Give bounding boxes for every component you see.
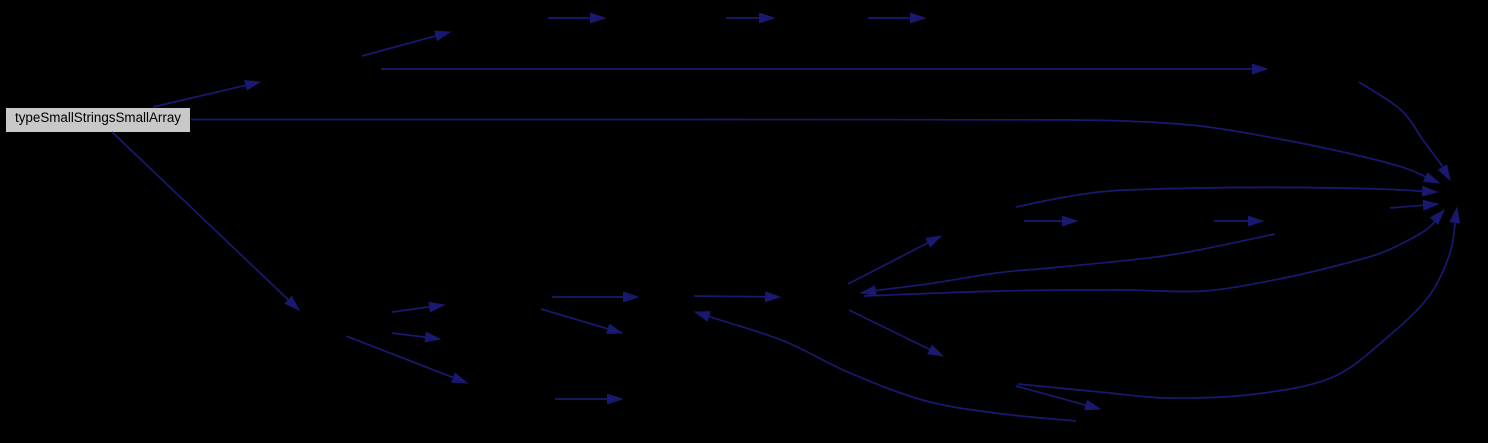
edge B->K	[392, 302, 444, 312]
edge M->N	[555, 394, 622, 404]
edge main->B (down diagonal)	[112, 132, 299, 310]
edge main->F (long straight)	[191, 120, 1439, 184]
edge n2->n3	[362, 31, 450, 56]
edge top-row arrow 3	[868, 13, 925, 23]
edge B->L	[392, 332, 440, 342]
edge H->F	[1016, 186, 1437, 207]
edge main->n2 (up diagonal)	[153, 81, 260, 107]
edge D->E (down right)	[849, 310, 943, 356]
edge K->C	[552, 292, 638, 302]
edge D->F	[864, 210, 1444, 296]
edge C->D	[694, 292, 780, 302]
edge E->G	[1016, 386, 1100, 410]
node typeSmallStringsSmallArray (highlighted)	[6, 108, 190, 132]
edge n2->r1 (long horizontal y=69)	[381, 64, 1267, 74]
edge top-row arrow 1	[548, 13, 605, 23]
edge G->C (long back curve)	[695, 312, 1076, 421]
edge B->M	[346, 336, 467, 383]
edge r1->F (top right curve)	[1359, 82, 1450, 180]
edge J->D (back curve)	[861, 234, 1275, 296]
edge top-row arrow 2	[726, 13, 774, 23]
edge E->F (bottom long curve)	[1018, 208, 1460, 398]
edge K->C2	[541, 309, 622, 334]
edge I->J	[1214, 216, 1263, 226]
edge J->F (stub)	[1390, 200, 1438, 210]
svg-text:typeSmallStringsSmallArray: typeSmallStringsSmallArray	[15, 110, 181, 125]
edge H->I	[1024, 216, 1077, 226]
edge D->H (up right)	[848, 236, 941, 284]
